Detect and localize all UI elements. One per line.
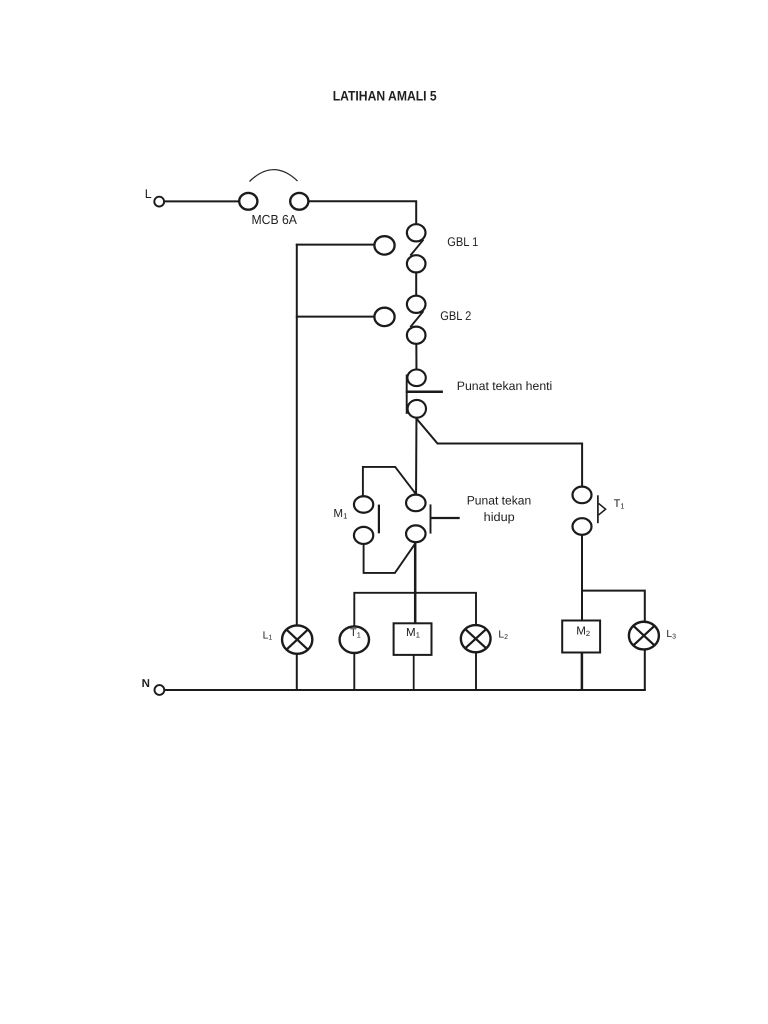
coil M2 box bbox=[562, 621, 600, 653]
wire hidup button to coil M1 (thick) bbox=[414, 534, 417, 624]
link circle GBL 1 bbox=[374, 236, 394, 254]
wire contact M1 branch top bbox=[363, 467, 416, 505]
label Punat tekan hidup bbox=[467, 494, 532, 524]
wire L terminal to MCB bbox=[164, 200, 239, 202]
wire bracket to T1 coil and lamp L2 bbox=[354, 593, 476, 690]
timer coil T1 bbox=[340, 626, 369, 653]
svg-text:GBL 2: GBL 2 bbox=[440, 309, 471, 323]
svg-text:L3: L3 bbox=[666, 629, 676, 640]
wire GBL2 branch bbox=[296, 316, 380, 318]
wire coil M2 to N (thick) bbox=[581, 653, 584, 691]
svg-text:L2: L2 bbox=[498, 630, 508, 641]
wire timer contact T1 to coil M2 bbox=[581, 527, 583, 621]
svg-text:Punat tekan: Punat tekan bbox=[467, 494, 532, 508]
svg-text:L1: L1 bbox=[263, 630, 273, 641]
wire henti button to hidup button bbox=[415, 409, 418, 503]
terminal L bbox=[145, 187, 164, 206]
wire MCB to GBL 1 bbox=[309, 201, 417, 233]
svg-text:MCB 6A: MCB 6A bbox=[251, 212, 297, 227]
wire GBL 2 to henti button bbox=[415, 335, 417, 378]
lamp L3 bbox=[629, 622, 659, 650]
contact GBL 2 bbox=[407, 296, 426, 344]
lamp L1 bbox=[282, 625, 312, 653]
link circle GBL 2 bbox=[374, 308, 394, 326]
wire GBL 1 to GBL 2 bbox=[415, 264, 417, 305]
timer contact T1 bbox=[573, 487, 606, 535]
wire branch to lamp L3 bbox=[581, 591, 645, 690]
svg-text:Punat tekan henti: Punat tekan henti bbox=[457, 379, 553, 393]
svg-text:T1: T1 bbox=[614, 498, 625, 511]
terminal N bbox=[142, 678, 165, 695]
breaker MCB 6A bbox=[239, 170, 308, 210]
wire N rail bbox=[164, 689, 646, 691]
wire contact M1 branch bottom bbox=[364, 535, 416, 573]
push button hidup (NO) bbox=[406, 495, 460, 543]
wire GBL1 branch bbox=[296, 244, 380, 246]
svg-text:M1: M1 bbox=[333, 507, 347, 521]
wire henti junction to timer contact T1 bbox=[417, 419, 583, 495]
svg-text:N: N bbox=[142, 678, 150, 690]
svg-text:L: L bbox=[145, 187, 152, 201]
lamp L2 bbox=[461, 625, 491, 652]
push button henti (NC) bbox=[406, 370, 443, 418]
contact GBL 1 bbox=[407, 224, 426, 272]
wire left rail (GBL branches to lamp L1 to N) bbox=[296, 244, 298, 690]
svg-text:GBL 1: GBL 1 bbox=[447, 235, 478, 249]
svg-text:LATIHAN AMALI 5: LATIHAN AMALI 5 bbox=[333, 88, 437, 103]
contact M1 (NO auxiliary) bbox=[354, 496, 379, 544]
coil M1 box bbox=[394, 623, 432, 655]
wire coil M1 to N bbox=[413, 655, 415, 691]
svg-text:hidup: hidup bbox=[484, 510, 515, 524]
